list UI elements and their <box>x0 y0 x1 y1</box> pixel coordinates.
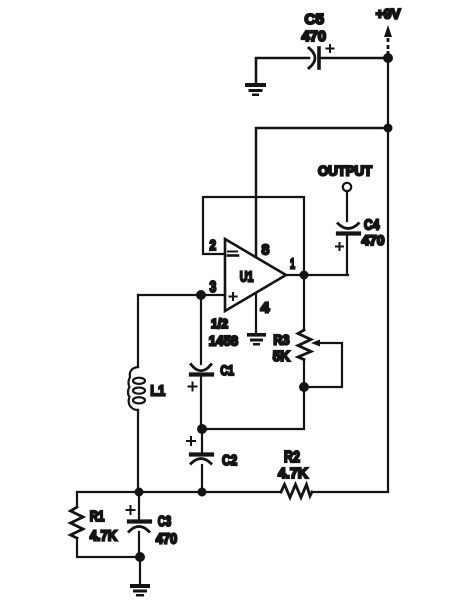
wire pin 1 output <box>286 274 348 276</box>
label +9V <box>376 6 401 22</box>
label R1 value 4.7K <box>90 527 118 544</box>
capacitor C1 <box>191 365 212 375</box>
svg-text:3: 3 <box>210 279 217 296</box>
svg-text:+9V: +9V <box>376 6 401 22</box>
wire C1 to node <box>200 376 202 429</box>
wire feedback loop pin1 to pin2 <box>203 197 304 275</box>
label pin 3 <box>210 279 217 296</box>
label pin 2 <box>210 238 217 254</box>
svg-text:OUTPUT: OUTPUT <box>318 162 372 178</box>
label plus input <box>230 293 237 300</box>
node L1-C3 <box>135 488 144 497</box>
capacitor C5 <box>309 48 319 68</box>
R3 wiper arrow <box>304 340 342 388</box>
label C3 value 470 <box>156 531 178 548</box>
wire C2 to bus <box>201 465 203 492</box>
node R3 bottom <box>299 382 309 392</box>
capacitor C2 <box>191 455 212 464</box>
wire pin3 to L1 branch <box>137 295 139 367</box>
svg-text:R3: R3 <box>273 331 289 347</box>
wire pin 4 to ground <box>255 293 257 333</box>
wire R1 branch <box>76 492 78 507</box>
node rail to op-amp supply <box>384 124 393 133</box>
label pin 8 <box>262 242 270 259</box>
label 1/2 <box>211 316 228 331</box>
label C4 <box>364 217 379 233</box>
svg-text:8: 8 <box>262 242 270 259</box>
svg-text:470: 470 <box>302 28 327 45</box>
svg-text:U1: U1 <box>240 270 254 286</box>
wire R3 junction to C1-C2 node <box>202 387 304 429</box>
svg-text:1458: 1458 <box>209 332 238 348</box>
wire rail to pin 8 <box>256 128 388 256</box>
label R3 <box>273 331 289 347</box>
label minus input <box>228 252 238 256</box>
svg-text:1/2: 1/2 <box>211 316 228 331</box>
label pin 4 <box>261 300 271 317</box>
svg-text:4.7K: 4.7K <box>90 527 118 544</box>
svg-text:R2: R2 <box>284 449 300 466</box>
label R3 value 5K <box>273 348 290 365</box>
svg-text:1: 1 <box>290 257 295 273</box>
wire pin 3 <box>138 294 225 296</box>
label R1 <box>90 508 105 525</box>
op-amp U1 <box>225 239 286 311</box>
resistor R2 <box>281 485 312 498</box>
node C1-C2 <box>197 424 207 434</box>
label C3 plus <box>127 506 135 514</box>
capacitor C4 <box>338 224 359 234</box>
wire R3 to junction <box>303 360 305 388</box>
+9V supply arrow <box>384 25 392 54</box>
label 1458 <box>209 332 238 348</box>
wire R1 bottom <box>77 538 140 557</box>
ground (bottom) <box>130 584 150 597</box>
node ground bottom <box>135 552 145 562</box>
wire R2 to rail <box>312 491 388 493</box>
svg-text:470: 470 <box>156 531 178 548</box>
svg-text:R1: R1 <box>90 508 105 525</box>
svg-text:470: 470 <box>362 232 385 248</box>
label C2 <box>222 452 237 469</box>
capacitor C3 <box>129 522 150 532</box>
node pin 3 <box>196 290 206 300</box>
wire C3 to ground node <box>138 532 140 557</box>
svg-text:2: 2 <box>210 238 217 254</box>
label C5 plus <box>327 45 334 52</box>
wire C5 to +9V rail <box>319 57 388 60</box>
wire C5 ground stub <box>256 58 309 84</box>
wire output node to R3 <box>303 275 305 330</box>
svg-text:C4: C4 <box>364 217 379 233</box>
output terminal <box>343 183 351 191</box>
svg-text:C3: C3 <box>158 513 172 530</box>
wire node to C2 <box>201 429 203 452</box>
wire ground bus left <box>77 491 281 493</box>
wire L1 to bus <box>137 410 139 492</box>
label C3 <box>158 513 172 530</box>
svg-text:C2: C2 <box>222 452 237 469</box>
label C1 plus <box>189 383 197 391</box>
label L1 <box>150 382 165 399</box>
svg-text:4: 4 <box>261 300 271 317</box>
label C2 plus <box>187 437 195 445</box>
svg-text:C5: C5 <box>305 11 325 28</box>
label C4 plus <box>336 243 343 250</box>
svg-text:5K: 5K <box>273 348 290 365</box>
label pin 1 <box>290 257 295 273</box>
inductor L1 <box>128 367 145 410</box>
svg-text:4.7K: 4.7K <box>278 465 308 482</box>
label U1 <box>240 270 254 286</box>
node C2 bottom <box>198 488 207 497</box>
node output <box>300 271 309 280</box>
label R2 value 4.7K <box>278 465 308 482</box>
svg-text:C1: C1 <box>220 362 234 378</box>
label C5 <box>305 11 325 28</box>
wire pin 3 node to C1 <box>200 295 202 364</box>
label C1 <box>220 362 234 378</box>
svg-text:L1: L1 <box>150 382 165 399</box>
wire C3 branch <box>138 492 140 519</box>
label C4 value 470 <box>362 232 385 248</box>
wire to bottom ground <box>139 557 141 585</box>
wire C4 to output node <box>346 235 348 275</box>
node +9V rail top <box>383 53 393 63</box>
ground (pin 4) <box>247 333 266 346</box>
wire output terminal to C4 <box>346 191 348 221</box>
label R2 <box>284 449 300 466</box>
label C5 value 470 <box>302 28 327 45</box>
ground (C5) <box>245 83 266 96</box>
label OUTPUT <box>318 162 372 178</box>
resistor R1 <box>71 507 84 538</box>
wire +9V rail <box>387 58 389 491</box>
potentiometer R3 <box>298 330 311 360</box>
